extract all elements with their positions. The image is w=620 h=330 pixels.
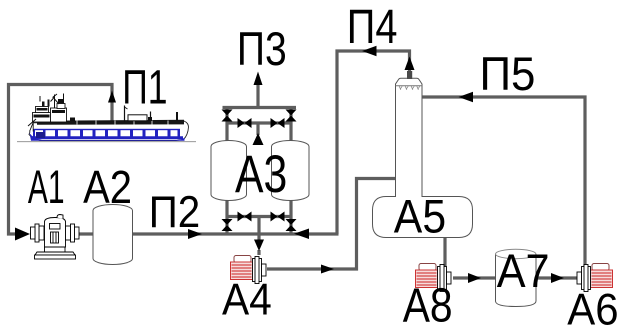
svg-text:А8: А8 (403, 279, 453, 330)
svg-text:А5: А5 (394, 190, 446, 243)
svg-text:А1: А1 (28, 161, 65, 214)
svg-text:А2: А2 (83, 161, 132, 213)
svg-text:П5: П5 (480, 47, 536, 100)
svg-text:П2: П2 (149, 188, 200, 237)
svg-text:П3: П3 (237, 22, 287, 75)
svg-text:П4: П4 (347, 0, 398, 54)
svg-text:А6: А6 (567, 284, 618, 330)
svg-text:А7: А7 (497, 245, 550, 298)
svg-text:А3: А3 (235, 145, 287, 204)
svg-text:П1: П1 (122, 61, 167, 115)
svg-text:А4: А4 (222, 275, 272, 324)
